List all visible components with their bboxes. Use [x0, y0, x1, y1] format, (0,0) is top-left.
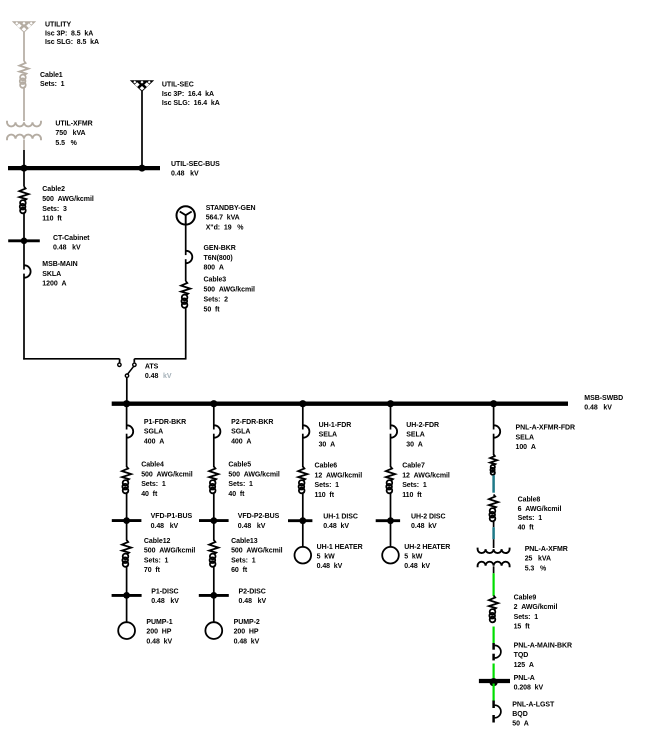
svg-text:Sets: 1: Sets: 1 — [514, 614, 539, 621]
bus VFD-P1-BUS — [112, 517, 142, 524]
label Cable4 text — [141, 462, 193, 498]
svg-text:PNL-A-XFMR-FDR: PNL-A-XFMR-FDR — [516, 425, 576, 432]
svg-text:PNL-A-LGST: PNL-A-LGST — [512, 701, 555, 708]
cable Cable8 sending-end symbol — [490, 455, 497, 475]
svg-text:Sets: 1: Sets: 1 — [402, 482, 427, 489]
svg-text:Cable2: Cable2 — [42, 186, 65, 193]
label PNL-A-XFMR text — [525, 546, 568, 572]
svg-text:30 A: 30 A — [319, 441, 335, 448]
label UH-1 HEATER text — [317, 544, 363, 570]
svg-text:PNL-A: PNL-A — [514, 675, 535, 682]
wire green segment PNL-A to PNL-A-LGST — [493, 684, 495, 701]
svg-text:Sets: 1: Sets: 1 — [40, 81, 65, 88]
breaker P2 feeder breaker — [214, 425, 220, 437]
svg-text:200 HP: 200 HP — [234, 629, 259, 636]
node junction UTIL-XFMR to bus — [21, 165, 28, 172]
svg-text:Cable5: Cable5 — [228, 462, 251, 469]
svg-text:P2-FDR-BKR: P2-FDR-BKR — [231, 419, 273, 426]
node junction UTIL-SEC to bus — [139, 165, 146, 172]
wire P2 bus drop — [213, 405, 215, 430]
svg-text:0.48 kV: 0.48 kV — [584, 405, 612, 412]
svg-text:125 A: 125 A — [514, 662, 534, 669]
svg-text:400 A: 400 A — [231, 438, 251, 445]
wire UH-1 bus drop — [302, 405, 304, 430]
svg-text:P1-DISC: P1-DISC — [151, 588, 178, 595]
svg-text:110 ft: 110 ft — [315, 492, 335, 499]
utility source UTIL-SEC — [130, 80, 154, 92]
svg-text:VFD-P2-BUS: VFD-P2-BUS — [238, 513, 280, 520]
svg-text:BQD: BQD — [512, 711, 527, 718]
svg-text:2 AWG/kcmil: 2 AWG/kcmil — [514, 604, 558, 611]
svg-text:5 kW: 5 kW — [317, 553, 335, 560]
wire UTIL-SEC stem — [141, 91, 143, 166]
svg-text:Sets: 1: Sets: 1 — [518, 515, 543, 522]
svg-text:Sets: 1: Sets: 1 — [315, 482, 340, 489]
svg-text:50 ft: 50 ft — [204, 306, 221, 313]
label UH-2 DISC text — [411, 513, 446, 530]
label UTILITY text — [45, 22, 99, 47]
svg-text:Sets: 1: Sets: 1 — [144, 557, 169, 564]
svg-text:STANDBY-GEN: STANDBY-GEN — [206, 205, 256, 212]
label PUMP-1 text — [146, 619, 172, 645]
label UTIL-SEC-BUS text — [171, 161, 220, 178]
label UH-1 feeder breaker text — [319, 422, 352, 448]
label P1 feeder breaker text — [144, 419, 186, 445]
utility source UTILITY (de-energized) — [12, 21, 36, 33]
svg-text:SELA: SELA — [516, 434, 534, 441]
cable Cable9 — [489, 596, 498, 623]
svg-text:0.48 kV: 0.48 kV — [239, 598, 267, 605]
wire Cable8 teal segment lower — [492, 527, 495, 539]
svg-text:5.3 %: 5.3 % — [525, 565, 547, 572]
node junction UH2 tap on MSB-SWBD — [387, 400, 394, 407]
wire UH-1 breaker to Cable6 — [302, 434, 304, 467]
cable Cable13 — [209, 540, 218, 567]
svg-text:TQD: TQD — [514, 652, 529, 659]
wire Cable2 to CT-Cabinet — [23, 213, 25, 239]
svg-text:Sets: 3: Sets: 3 — [42, 206, 67, 213]
bus UH-1 DISC disconnect — [288, 517, 312, 524]
svg-text:Isc 3P: 16.4 kA: Isc 3P: 16.4 kA — [162, 91, 214, 98]
label VFD-P1-BUS text — [151, 513, 193, 530]
wire teal to PNL-A-XFMR — [493, 539, 495, 548]
wire CT-Cabinet to MSB-MAIN — [23, 242, 25, 269]
bus VFD-P2-BUS — [199, 517, 229, 524]
cable Cable7 — [386, 467, 395, 494]
label PUMP-2 text — [234, 619, 260, 645]
svg-text:Cable6: Cable6 — [315, 463, 338, 470]
svg-text:Cable9: Cable9 — [514, 594, 537, 601]
label Cable7 text — [402, 463, 450, 499]
svg-text:110 ft: 110 ft — [402, 492, 422, 499]
wire xfmr secondary black stub — [493, 566, 495, 573]
svg-text:Sets: 1: Sets: 1 — [231, 557, 256, 564]
svg-text:UH-1-FDR: UH-1-FDR — [319, 422, 352, 429]
svg-text:0.48 kV: 0.48 kV — [53, 245, 81, 252]
cable Cable2 — [19, 187, 28, 214]
bus PNL-A panel — [479, 678, 510, 686]
wire green segment bkr to PNL-A — [493, 664, 495, 680]
svg-text:5.5 %: 5.5 % — [55, 140, 77, 147]
svg-text:UH-2-FDR: UH-2-FDR — [406, 422, 439, 429]
svg-text:500 AWG/kcmil: 500 AWG/kcmil — [204, 287, 256, 294]
label CT-Cabinet text — [53, 235, 90, 252]
wire P1-DISC to pump — [126, 597, 128, 623]
wire P1 bus drop — [126, 405, 128, 430]
svg-text:PUMP-2: PUMP-2 — [234, 619, 260, 626]
load UH-2 HEATER — [382, 547, 399, 564]
wire P2 breaker to Cable5 — [213, 434, 215, 467]
motor PUMP-1 — [118, 622, 135, 639]
label Cable9 text — [514, 594, 558, 630]
label UH-2 HEATER text — [404, 544, 450, 570]
svg-text:Cable8: Cable8 — [518, 496, 541, 503]
wire Cable12 to P1-DISC — [126, 567, 128, 595]
label UTIL-SEC text — [162, 81, 220, 107]
label Cable6 text — [315, 463, 363, 499]
svg-text:Sets: 1: Sets: 1 — [141, 481, 166, 488]
label P2-DISC text — [239, 588, 267, 605]
wire generator to GEN-BKR — [185, 225, 187, 256]
switch ATS — [118, 363, 136, 377]
cable Cable8 — [489, 495, 498, 522]
motor PUMP-2 — [205, 622, 222, 639]
svg-text:Cable13: Cable13 — [231, 538, 258, 545]
svg-text:12 AWG/kcmil: 12 AWG/kcmil — [315, 472, 363, 479]
label GEN-BKR text — [204, 245, 236, 272]
wire Cable6 to UH-1 DISC — [302, 493, 304, 519]
wire P2-DISC to pump — [213, 597, 215, 623]
wire bus to Cable2 — [23, 170, 25, 187]
svg-text:GEN-BKR: GEN-BKR — [204, 245, 236, 252]
cable Cable6 — [298, 467, 307, 494]
bus P1-DISC disconnect — [112, 592, 142, 599]
svg-text:T6N(800): T6N(800) — [204, 255, 233, 262]
breaker PNL-A-XFMR-FDR — [494, 425, 500, 437]
wire green segment Cable9 to PNL-A-MAIN-BKR — [493, 627, 495, 644]
wire VFD bus to Cable12 — [126, 522, 128, 541]
label Cable13 text — [231, 538, 283, 574]
label MSB-MAIN text — [42, 261, 77, 288]
svg-text:UH-2 DISC: UH-2 DISC — [411, 513, 446, 520]
svg-text:70 ft: 70 ft — [144, 567, 161, 574]
svg-text:Cable7: Cable7 — [402, 463, 425, 470]
wire UH-2 breaker to Cable7 — [390, 434, 392, 467]
label PNL-A-LGST text — [512, 701, 555, 727]
svg-text:0.48 kV: 0.48 kV — [234, 638, 260, 645]
svg-text:0.48 kV: 0.48 kV — [323, 523, 349, 530]
label UH-1 DISC text — [323, 513, 358, 530]
breaker UH-2 feeder breaker — [391, 425, 397, 437]
wire MSB-MAIN to ATS normal-source horizontal — [23, 359, 119, 363]
label UTIL-XFMR text — [55, 121, 92, 147]
wire Cable7 to UH-2 DISC — [390, 493, 392, 519]
label PNL-A text — [514, 675, 544, 692]
svg-text:500 AWG/kcmil: 500 AWG/kcmil — [228, 471, 280, 478]
wire utility stem upper (gray) — [23, 32, 25, 61]
svg-text:40 ft: 40 ft — [228, 491, 245, 498]
svg-text:PUMP-1: PUMP-1 — [146, 619, 172, 626]
label Cable3 text — [204, 277, 256, 314]
svg-text:0.208 kV: 0.208 kV — [514, 685, 544, 692]
wire PNL-A bus drop — [493, 405, 495, 430]
svg-text:0.48 kV: 0.48 kV — [411, 523, 437, 530]
cable Cable5 — [209, 467, 218, 494]
svg-text:Cable12: Cable12 — [144, 538, 171, 545]
svg-text:6 AWG/kcmil: 6 AWG/kcmil — [518, 506, 562, 513]
svg-text:Isc SLG: 16.4 kA: Isc SLG: 16.4 kA — [162, 100, 220, 107]
label Cable8 text — [518, 496, 562, 531]
wire utility stem lower (gray) — [23, 88, 25, 122]
wire Cable8 teal segment upper — [492, 475, 495, 492]
wire UH-1 DISC to heater — [302, 522, 304, 547]
wire Cable13 to P2-DISC — [213, 567, 215, 595]
svg-text:800 A: 800 A — [204, 265, 224, 272]
svg-text:1200 A: 1200 A — [42, 281, 66, 288]
svg-text:0.48 kV: 0.48 kV — [404, 563, 430, 570]
load UH-1 HEATER — [295, 547, 312, 564]
node junction P2 tap on MSB-SWBD — [210, 400, 217, 407]
svg-text:VFD-P1-BUS: VFD-P1-BUS — [151, 513, 193, 520]
transformer PNL-A-XFMR — [478, 548, 510, 568]
wire Cable3 to ATS emergency-source — [134, 308, 186, 363]
wire Cable4 to VFD bus — [126, 493, 128, 519]
svg-text:Cable4: Cable4 — [141, 462, 164, 469]
svg-text:UTIL-XFMR: UTIL-XFMR — [55, 121, 92, 128]
bus CT-Cabinet — [8, 238, 40, 245]
svg-text:30 A: 30 A — [406, 441, 422, 448]
svg-text:0.48 kV: 0.48 kV — [146, 638, 172, 645]
wire Cable8 lower black — [493, 521, 495, 527]
svg-text:SKLA: SKLA — [42, 271, 61, 278]
wire Cable5 to VFD bus — [213, 493, 215, 519]
svg-text:Sets: 1: Sets: 1 — [228, 481, 253, 488]
cable Cable4 — [122, 467, 131, 494]
svg-text:5 kW: 5 kW — [404, 553, 422, 560]
svg-text:UTILITY: UTILITY — [45, 22, 71, 29]
svg-text:UH-1 DISC: UH-1 DISC — [323, 513, 358, 520]
svg-text:400 A: 400 A — [144, 438, 164, 445]
transformer UTIL-XFMR (gray) — [7, 121, 41, 141]
bus UTIL-SEC-BUS — [8, 166, 160, 170]
wire UH-2 bus drop — [390, 405, 392, 430]
svg-text:500 AWG/kcmil: 500 AWG/kcmil — [141, 471, 193, 478]
svg-text:UH-2 HEATER: UH-2 HEATER — [404, 544, 450, 551]
svg-text:Cable1: Cable1 — [40, 72, 63, 79]
svg-text:UTIL-SEC: UTIL-SEC — [162, 81, 194, 88]
wire ATS to MSB-SWBD — [126, 377, 128, 402]
wire P1 breaker to Cable4 — [126, 434, 128, 467]
svg-text:40 ft: 40 ft — [518, 525, 535, 532]
node junction P1 tap on MSB-SWBD — [123, 400, 130, 407]
svg-text:50 A: 50 A — [512, 721, 528, 728]
label Cable1 text — [40, 72, 65, 88]
label Cable12 text — [144, 538, 196, 574]
svg-text:0.48 kV: 0.48 kV — [317, 563, 343, 570]
cable Cable1 (gray) — [19, 61, 28, 88]
svg-text:SELA: SELA — [406, 432, 424, 439]
wire UH-2 DISC to heater — [390, 522, 392, 547]
wire MSB-MAIN lower — [23, 274, 25, 360]
label UH-2 feeder breaker text — [406, 422, 439, 448]
svg-text:100 A: 100 A — [516, 444, 536, 451]
svg-text:kV: kV — [163, 373, 172, 380]
svg-text:CT-Cabinet: CT-Cabinet — [53, 235, 90, 242]
svg-text:750 kVA: 750 kVA — [55, 130, 85, 137]
wire GEN-BKR to Cable3 — [185, 259, 187, 281]
svg-text:P1-FDR-BKR: P1-FDR-BKR — [144, 419, 186, 426]
svg-text:PNL-A-MAIN-BKR: PNL-A-MAIN-BKR — [514, 643, 572, 650]
bus UH-2 DISC disconnect — [376, 517, 400, 524]
svg-text:0.48 kV: 0.48 kV — [238, 523, 266, 530]
svg-text:0.48 kV: 0.48 kV — [151, 598, 179, 605]
breaker P1 feeder breaker — [127, 425, 133, 437]
svg-text:P2-DISC: P2-DISC — [239, 588, 266, 595]
bus MSB-SWBD — [112, 402, 568, 406]
svg-text:ATS: ATS — [145, 364, 159, 371]
svg-text:SGLA: SGLA — [144, 429, 163, 436]
wire UTIL-XFMR secondary lead — [23, 140, 25, 167]
label P1-DISC text — [151, 588, 179, 605]
wire green segment xfmr to Cable9 — [493, 573, 495, 596]
svg-text:MSB-SWBD: MSB-SWBD — [584, 395, 623, 402]
node junction UH1 tap on MSB-SWBD — [299, 400, 306, 407]
svg-text:Cable3: Cable3 — [204, 277, 227, 284]
svg-text:15 ft: 15 ft — [514, 624, 531, 631]
svg-text:12 AWG/kcmil: 12 AWG/kcmil — [402, 472, 450, 479]
svg-text:200 HP: 200 HP — [146, 629, 171, 636]
cable Cable3 — [181, 281, 190, 308]
svg-text:40 ft: 40 ft — [141, 491, 158, 498]
breaker PNL-A-LGST — [492, 701, 501, 723]
cable Cable12 — [122, 540, 131, 567]
breaker PNL-A-MAIN-BKR — [492, 643, 501, 660]
svg-text:0.48 kV: 0.48 kV — [151, 523, 179, 530]
wire VFD bus to Cable13 — [213, 522, 215, 541]
svg-text:UTIL-SEC-BUS: UTIL-SEC-BUS — [171, 161, 220, 168]
label ATS text — [145, 364, 172, 380]
svg-text:564.7 kVA: 564.7 kVA — [206, 215, 240, 222]
breaker GEN-BKR — [186, 251, 192, 263]
svg-text:X"d: 19 %: X"d: 19 % — [206, 224, 245, 231]
label PNL-A-MAIN-BKR text — [514, 643, 572, 669]
bus P2-DISC disconnect — [199, 592, 229, 599]
svg-text:60 ft: 60 ft — [231, 567, 248, 574]
label Cable5 text — [228, 462, 280, 498]
label MSB-SWBD text — [584, 395, 623, 412]
svg-text:UH-1 HEATER: UH-1 HEATER — [317, 544, 363, 551]
svg-text:SGLA: SGLA — [231, 429, 250, 436]
svg-text:MSB-MAIN: MSB-MAIN — [42, 261, 77, 268]
svg-text:500 AWG/kcmil: 500 AWG/kcmil — [231, 548, 283, 555]
wire breaker to Cable8 upper — [493, 434, 495, 455]
svg-text:0.48: 0.48 — [145, 373, 159, 380]
svg-text:SELA: SELA — [319, 432, 337, 439]
label P2 feeder breaker text — [231, 419, 273, 445]
generator STANDBY-GEN — [177, 206, 195, 224]
svg-text:Sets: 2: Sets: 2 — [204, 297, 229, 304]
breaker MSB-MAIN — [24, 265, 30, 277]
svg-text:110 ft: 110 ft — [42, 216, 62, 223]
node junction PNL tap on MSB-SWBD — [490, 400, 497, 407]
label VFD-P2-BUS text — [238, 513, 280, 530]
label Cable2 text — [42, 186, 94, 223]
svg-text:Isc 3P: 8.5 kA: Isc 3P: 8.5 kA — [45, 30, 93, 37]
svg-text:500 AWG/kcmil: 500 AWG/kcmil — [144, 548, 196, 555]
svg-text:25 kVA: 25 kVA — [525, 556, 551, 563]
svg-text:PNL-A-XFMR: PNL-A-XFMR — [525, 546, 568, 553]
svg-text:0.48 kV: 0.48 kV — [171, 171, 199, 178]
svg-text:Isc SLG: 8.5 kA: Isc SLG: 8.5 kA — [45, 39, 99, 46]
label STANDBY-GEN text — [206, 205, 256, 231]
breaker UH-1 feeder breaker — [303, 425, 309, 437]
svg-text:500 AWG/kcmil: 500 AWG/kcmil — [42, 196, 94, 203]
label PNL-A-XFMR-FDR text — [516, 425, 576, 451]
